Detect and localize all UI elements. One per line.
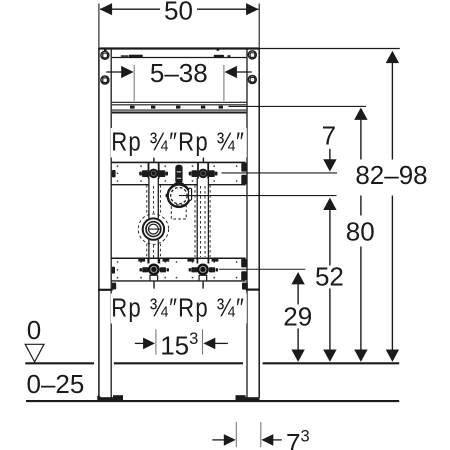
adjustable rail tabs <box>130 106 135 109</box>
top bar tab left pair <box>121 55 129 57</box>
lower supply rail bottom line <box>112 280 246 282</box>
floor line lower <box>26 400 399 402</box>
upper fitting left <box>139 158 168 179</box>
clamp right bracket <box>189 188 192 200</box>
svg-text:80: 80 <box>346 216 375 246</box>
screw hole top-right lower <box>248 76 256 84</box>
upper supply rail bottom line <box>112 184 246 186</box>
dimension 5-38: left arrow <box>106 71 122 73</box>
left leg inner line <box>110 49 112 398</box>
dimension 15.3: left arrow <box>135 342 145 344</box>
svg-text:82–98: 82–98 <box>355 160 427 190</box>
central drain flare <box>173 183 186 187</box>
dimension 50: dimension line <box>100 8 259 10</box>
lower rail right leg lower clip <box>242 283 248 290</box>
right pipe inner dashed lines <box>201 186 205 257</box>
lower fitting right <box>187 259 218 289</box>
top bar tab right pair <box>214 55 224 58</box>
svg-text:Rp ¾″Rp ¾″: Rp ¾″Rp ¾″ <box>111 294 245 323</box>
central drain pipe <box>175 165 182 184</box>
left pipe white body <box>149 178 158 263</box>
lower rail left leg clip <box>112 267 115 274</box>
right leg inner line <box>246 49 248 398</box>
dimension 7 down arrow <box>329 149 331 160</box>
upper rail rivets <box>117 165 238 182</box>
lower supply rail top line <box>112 257 246 259</box>
lower rail right leg clips <box>241 259 246 268</box>
screw hole top-left upper <box>101 51 109 59</box>
left pipe elbow dashed circle <box>138 214 168 244</box>
adjustable rail line 1 <box>112 101 246 103</box>
right leg telescope joint bar <box>246 289 260 291</box>
right pipe solid lines <box>197 178 208 260</box>
clamp left screw nub <box>166 194 169 197</box>
dimension 15.3: right extension line <box>202 329 204 354</box>
dimension 50: left arrowhead <box>100 3 113 15</box>
dimension 7.3: right extension line <box>260 422 262 447</box>
top line small ticks <box>104 49 107 50</box>
left pipe solid lines <box>149 178 158 263</box>
floor line upper <box>25 362 399 364</box>
dimension 5-38: right arrow <box>237 71 252 73</box>
right pipe white body <box>197 178 208 259</box>
lower fitting left <box>138 259 169 289</box>
upper rail left leg clip <box>112 170 116 177</box>
dimension 15.3: left extension line <box>155 329 157 354</box>
adjustable rail line 2 <box>112 104 246 106</box>
screw hole top-left lower <box>101 76 109 84</box>
Rp 3/4 text row 2 background <box>111 294 247 324</box>
svg-text:29: 29 <box>283 301 312 331</box>
right leg outer line <box>258 48 260 398</box>
left pipe dashed outer lines <box>147 185 161 258</box>
svg-text:0: 0 <box>27 315 41 345</box>
right foot plate <box>236 397 260 400</box>
upper supply rail top line <box>112 161 246 163</box>
svg-text:Rp ¾″Rp ¾″: Rp ¾″Rp ¾″ <box>111 128 245 157</box>
upper rail right leg clips <box>241 163 246 172</box>
dimension 15.3: right arrow <box>214 342 228 344</box>
left foot plate <box>97 397 123 400</box>
drain pipe clamp circle <box>168 185 190 207</box>
80 reference line (rail line extended right) <box>229 105 367 107</box>
svg-text:7: 7 <box>322 121 336 151</box>
dimension 29 line with arrows <box>291 272 304 284</box>
frame top line extension to 82-98 reference <box>260 48 400 50</box>
svg-text:52: 52 <box>315 261 344 291</box>
left pipe dashed center line <box>153 186 155 258</box>
leader line A upper supply axis <box>222 172 338 174</box>
dimension 50: right extension line <box>258 4 260 48</box>
dimension 52 line with arrows <box>323 198 336 210</box>
dimension 50: right arrowhead <box>246 3 259 15</box>
upper fitting right <box>189 158 218 179</box>
dimension 5-38: right extension line <box>223 65 225 101</box>
dimension 7.3: left extension line <box>235 422 237 447</box>
dimension 82-98 line with arrows <box>386 51 399 63</box>
leader line B drain axis 52 <box>179 195 337 197</box>
drain outlet dashed box <box>171 205 186 219</box>
adjustable rail bottom thick line <box>112 112 246 114</box>
dimension 80 line with arrows <box>354 108 367 120</box>
dimension 50: left extension line <box>98 4 100 48</box>
screw hole top-right upper <box>248 51 256 59</box>
svg-text:5–38: 5–38 <box>150 58 208 88</box>
lower rail left leg lower clip <box>112 283 116 290</box>
zero level triangle <box>25 344 44 362</box>
adjustable rail line 3 <box>112 109 246 111</box>
frame top bar inner line <box>112 57 246 59</box>
dimension 7.3: left arrow <box>212 439 225 441</box>
dimension 5-38: left extension line <box>133 65 135 101</box>
left leg outer line <box>98 48 100 398</box>
right pipe outer dashed lines <box>195 185 210 257</box>
lower rail rivets <box>117 261 238 279</box>
dimension 7.3: right arrow <box>273 439 282 441</box>
frame top bar thick line <box>98 47 260 49</box>
svg-text:0–25: 0–25 <box>27 369 85 399</box>
Rp 3/4 text row 1 background <box>111 128 247 158</box>
leader line C lower supply axis 29 <box>219 268 305 270</box>
svg-text:50: 50 <box>164 0 193 25</box>
left pipe elbow fitting <box>143 218 164 239</box>
left leg telescope joint bar <box>98 289 113 291</box>
